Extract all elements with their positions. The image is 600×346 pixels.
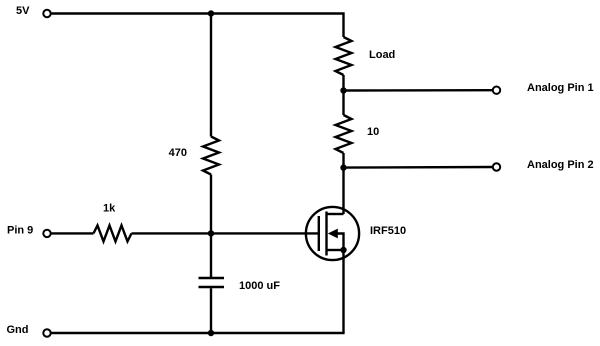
wire Analog Pin 2 (344, 166, 493, 169)
transistor Q1 source stub (328, 249, 344, 251)
transistor Q1 IRF510 body circle (306, 207, 359, 260)
svg-text:Analog Pin 2: Analog Pin 2 (527, 159, 594, 171)
junction node ground (208, 330, 214, 336)
svg-text:Analog Pin 1: Analog Pin 1 (527, 82, 594, 94)
terminal Analog Pin 2 (493, 163, 500, 170)
junction node Analog Pin 1 (340, 87, 346, 93)
transistor Q1 drain stub (328, 213, 344, 215)
transistor Q1 gate bar (318, 216, 320, 251)
capacitor 1000uF bottom plate (199, 286, 225, 289)
wire 1k to gate node (132, 232, 212, 234)
junction node 5V/470 (208, 10, 214, 16)
terminal Analog Pin 1 (493, 87, 500, 94)
terminal Pin 9 (43, 230, 50, 237)
svg-text:1k: 1k (103, 203, 116, 215)
resistor 10 (336, 115, 352, 153)
svg-text:Pin 9: Pin 9 (7, 225, 33, 237)
svg-text:Gnd: Gnd (7, 324, 29, 336)
transistor Q1 body arrow (328, 229, 338, 239)
junction node Analog Pin 2 (340, 164, 346, 170)
wire Analog Pin 1 (344, 89, 493, 92)
transistor Q1 channel bar (325, 212, 327, 256)
wire source to ground rail (342, 250, 344, 333)
wire 5V top rail (51, 14, 343, 38)
wire capacitor bottom lead (210, 288, 212, 333)
wire Pin 9 lead (51, 232, 93, 234)
transistor Q1 body arrow tail (334, 234, 344, 251)
svg-text:Load: Load (369, 49, 395, 61)
svg-text:470: 470 (169, 147, 187, 159)
terminal 5V (43, 10, 50, 17)
resistor 470 (203, 137, 219, 175)
svg-text:10: 10 (367, 126, 379, 138)
terminal Gnd (43, 329, 50, 336)
junction node source (340, 247, 346, 253)
wire Load to 10 (342, 75, 344, 115)
svg-text:IRF510: IRF510 (370, 225, 406, 237)
resistor Load (336, 37, 352, 75)
wire 470 top lead (210, 14, 212, 137)
svg-text:1000 uF: 1000 uF (239, 280, 280, 292)
wire 470 bottom lead (210, 175, 212, 278)
wire 10 to drain (342, 153, 344, 214)
wire ground rail (51, 332, 344, 334)
svg-text:5V: 5V (16, 5, 30, 17)
resistor 1k (94, 225, 132, 241)
wire gate lead (211, 232, 318, 234)
capacitor 1000uF top plate (199, 277, 225, 280)
junction node gate (208, 230, 214, 236)
